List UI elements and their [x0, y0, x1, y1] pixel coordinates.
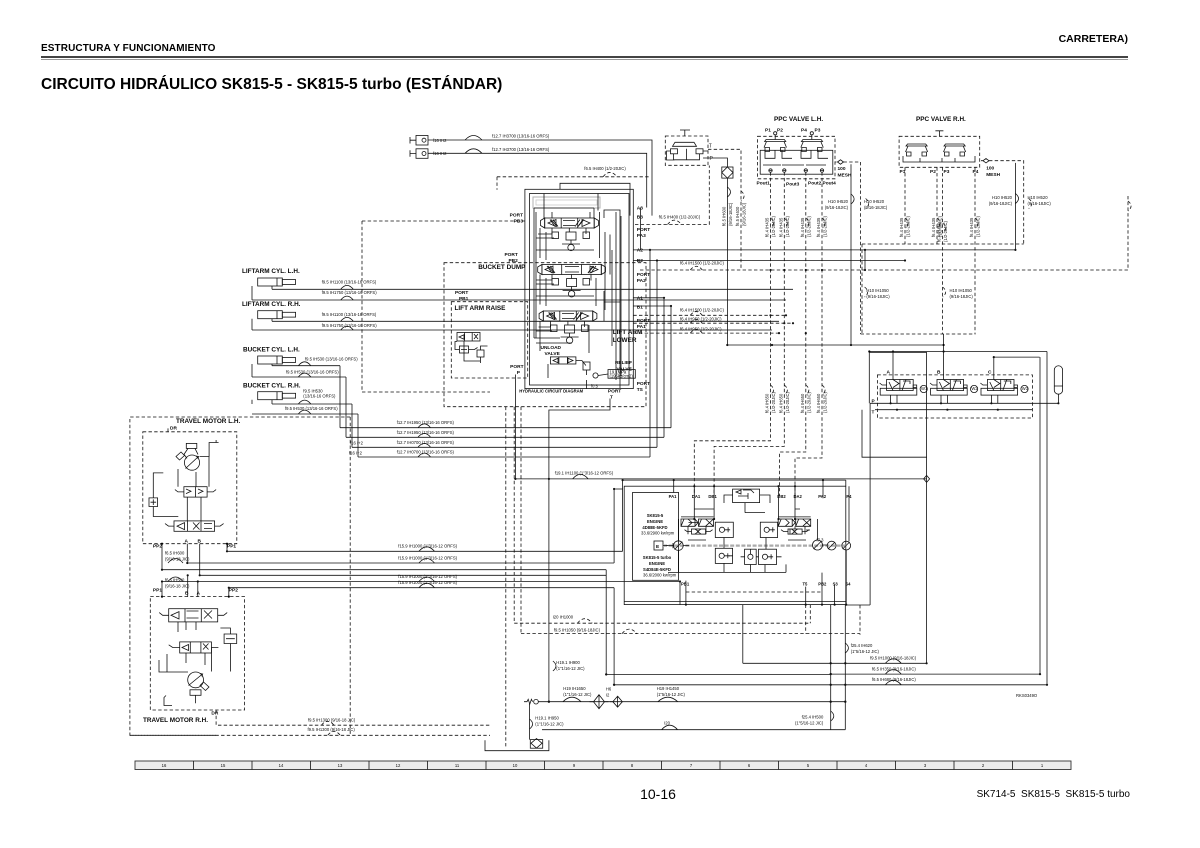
svg-text:B2: B2 — [637, 258, 643, 264]
svg-text:f6.5 IH600: f6.5 IH600 — [721, 206, 726, 226]
hose bucket bundle f12.7 IH0700 line3 — [350, 440, 657, 448]
pilot dashed PA1 row f6.4 IH950 — [633, 317, 793, 324]
svg-text:LOWER: LOWER — [613, 337, 637, 344]
solenoid P bus — [845, 403, 1058, 605]
wire B1 stub and drop — [633, 306, 671, 428]
svg-text:P4: P4 — [801, 128, 807, 134]
svg-text:PORT: PORT — [510, 364, 523, 370]
svg-text:f9.5 IH1750 (13/16-16 ORFS): f9.5 IH1750 (13/16-16 ORFS) — [322, 323, 378, 328]
wire suction drop f25.4 IH500 — [795, 605, 834, 730]
svg-text:(1/2-20JIC): (1/2-20JIC) — [906, 215, 911, 237]
solenoid supply bus — [727, 345, 943, 352]
svg-text:f6.4 IH435: f6.4 IH435 — [816, 217, 821, 237]
svg-text:13: 13 — [338, 763, 343, 768]
svg-text:f12.7 IH0700 (13/16-16 ORFS): f12.7 IH0700 (13/16-16 ORFS) — [397, 440, 455, 445]
wire PPC LH return dashed down — [844, 162, 891, 334]
svg-text:S3: S3 — [833, 582, 839, 587]
pilot dashed bus f6.4 IH1500 long — [640, 261, 1128, 271]
control valve dashed enclosure (bucket dump) — [444, 263, 646, 407]
svg-text:P1: P1 — [765, 128, 771, 134]
svg-text:H10 IH520: H10 IH520 — [1028, 195, 1049, 200]
wire accumulator to P bus — [1057, 402, 1059, 404]
svg-text:PORT: PORT — [510, 213, 523, 219]
hose f19.1 IH1100 pump delivery — [515, 471, 926, 479]
dashed T5 drain — [521, 605, 860, 635]
svg-text:BUCKET CYL. R.H.: BUCKET CYL. R.H. — [243, 383, 301, 390]
travel motor RH port B A — [185, 591, 201, 597]
travel motors outer dashed enclosure — [130, 417, 350, 735]
svg-text:f15.9 IH1000 (1"3/16-12 ORFS): f15.9 IH1000 (1"3/16-12 ORFS) — [398, 580, 457, 585]
page title — [41, 76, 502, 94]
svg-text:P2: P2 — [930, 169, 936, 175]
hose liftarm RH B f9.5 IH1750 — [252, 323, 772, 330]
svg-text:H10 IH520: H10 IH520 — [828, 199, 849, 204]
svg-text:f9.5 IH1300 (9/16-18 JIC): f9.5 IH1300 (9/16-18 JIC) — [308, 718, 356, 723]
wire PA1 riser bus — [623, 480, 846, 551]
travel line PP1L y551 — [227, 544, 623, 552]
svg-text:f12.7 IH3700 (13/16-16 ORFS): f12.7 IH3700 (13/16-16 ORFS) — [492, 147, 550, 152]
travel motor RH assembly — [150, 597, 244, 717]
svg-text:f9.5 IH1300 (9/16-18 JIC): f9.5 IH1300 (9/16-18 JIC) — [308, 727, 356, 732]
svg-text:B1: B1 — [637, 305, 643, 311]
svg-text:(9/16-18JIC): (9/16-18JIC) — [864, 205, 888, 210]
svg-text:H6: H6 — [606, 687, 612, 692]
travel motor RH port PP2 — [228, 588, 238, 598]
svg-text:(1/2-20JIC): (1/2-20JIC) — [976, 215, 981, 237]
svg-text:SK815-5: SK815-5 — [647, 513, 664, 518]
drain hose f9.5 IH1300 1 — [216, 710, 490, 725]
svg-text:(9/16-18JIC): (9/16-18JIC) — [728, 202, 733, 226]
svg-text:ENGINE: ENGINE — [649, 561, 665, 566]
svg-text:f6.4 IH435: f6.4 IH435 — [931, 217, 936, 237]
svg-text:f12.7 IH0700 (13/16-16 ORFS): f12.7 IH0700 (13/16-16 ORFS) — [397, 450, 455, 455]
svg-text:P3: P3 — [815, 128, 821, 134]
engine top relief box — [733, 489, 760, 503]
svg-text:f6.5 IH600: f6.5 IH600 — [165, 551, 185, 556]
tank filter diamond — [530, 739, 542, 749]
page number — [58, 786, 1200, 802]
port label PORT TS — [637, 381, 650, 393]
solenoid top bus — [869, 334, 1047, 685]
port label PORT PB2 — [504, 252, 518, 264]
svg-text:RKS0349O: RKS0349O — [1016, 693, 1038, 698]
engine internal wires — [663, 495, 818, 573]
engine E drive box — [654, 541, 663, 550]
svg-text:I20 IH1000: I20 IH1000 — [553, 615, 574, 620]
hose f6.5 IH500 RH label — [165, 577, 190, 589]
svg-text:A2: A2 — [637, 248, 643, 254]
hose f12.7 IH3700 upper — [428, 134, 652, 216]
svg-text:f6.5 IH350 (9/16-18JIC): f6.5 IH350 (9/16-18JIC) — [872, 667, 916, 672]
port label PORT PA3 — [637, 227, 650, 239]
svg-text:f6.4 IH650: f6.4 IH650 — [816, 393, 821, 413]
travel line BL y575.3 — [200, 574, 607, 576]
header: right label — [1059, 33, 1128, 45]
svg-text:(1/2-20JIC): (1/2-20JIC) — [771, 215, 776, 237]
svg-text:E: E — [656, 544, 660, 550]
PPC RH 100 mesh strainer — [981, 159, 1001, 179]
pilot line RH P1 dashed — [899, 167, 911, 244]
svg-text:f6.5 IH400: f6.5 IH400 — [735, 206, 740, 226]
travel motor LH port PP2 — [153, 543, 163, 550]
gear pump 3 — [827, 541, 836, 550]
pilot line Pout2 dashed — [780, 172, 812, 496]
svg-text:I2: I2 — [606, 693, 610, 698]
hose bucket bundle f12.7 IH1950 line2 — [346, 430, 664, 438]
svg-text:T5: T5 — [803, 582, 809, 587]
svg-text:f9.5 IH1100 (13/16-16 ORFS): f9.5 IH1100 (13/16-16 ORFS) — [322, 280, 377, 285]
wire A2 drop — [649, 250, 651, 457]
svg-text:(9/16-18JIC): (9/16-18JIC) — [866, 294, 890, 299]
PPC LH 100 mesh strainer — [836, 160, 852, 179]
engine port labels bottom — [681, 582, 851, 587]
wire travel line4 join — [598, 574, 606, 576]
svg-text:(1"5/16-12 JIC): (1"5/16-12 JIC) — [657, 692, 686, 697]
PPC valve RH assembly — [899, 131, 980, 175]
svg-text:11: 11 — [455, 763, 460, 768]
svg-text:TRAVEL MOTOR R.H.: TRAVEL MOTOR R.H. — [143, 717, 208, 724]
svg-text:(1"1/16-12 JIC): (1"1/16-12 JIC) — [563, 692, 592, 697]
svg-text:f9.5 IH1100 (13/16-16 ORFS): f9.5 IH1100 (13/16-16 ORFS) — [322, 312, 377, 317]
wire PPC RH return dashed down — [989, 161, 1051, 244]
wire travel line3 drop to suction — [606, 570, 831, 675]
liftarm cylinder LH — [242, 268, 300, 300]
svg-text:P3: P3 — [944, 169, 950, 175]
solenoid T bus — [862, 410, 1032, 458]
solenoid valve block enclosure — [877, 375, 1032, 418]
port label PORT PB1 — [455, 290, 469, 302]
svg-text:f6.4 IH435: f6.4 IH435 — [778, 217, 783, 237]
wire A3 internal drop — [640, 208, 642, 250]
svg-text:(1/2-20JIC): (1/2-20JIC) — [785, 391, 790, 413]
svg-text:PORT: PORT — [637, 381, 650, 387]
svg-text:P2: P2 — [777, 128, 783, 134]
solenoid valve C — [980, 370, 1028, 404]
svg-text:f25.4 IH500: f25.4 IH500 — [802, 715, 824, 720]
svg-text:f6.4 IH650: f6.4 IH650 — [800, 393, 805, 413]
svg-text:B: B — [198, 539, 202, 545]
svg-text:f9.5 IH530 (13/16-16 ORFS): f9.5 IH530 (13/16-16 ORFS) — [305, 356, 358, 361]
wire PB2 drop f25.4 IH620 — [845, 605, 879, 730]
wire main drop to bottom right — [869, 352, 926, 663]
dashed drops to tank — [506, 407, 521, 747]
svg-text:(1/2-20JIC): (1/2-20JIC) — [806, 215, 811, 237]
svg-text:P4: P4 — [973, 169, 979, 175]
wire B2 drop — [656, 261, 658, 448]
svg-text:A1: A1 — [637, 296, 643, 302]
wire filter down to solenoid feed bus — [721, 178, 733, 345]
svg-text:f15.9 IH1000 (1"3/16-12 ORFS): f15.9 IH1000 (1"3/16-12 ORFS) — [398, 544, 457, 549]
svg-text:Pout4: Pout4 — [823, 181, 837, 187]
svg-text:PB2: PB2 — [818, 582, 827, 587]
svg-text:PPC VALVE R.H.: PPC VALVE R.H. — [916, 116, 966, 123]
wire port P drop — [514, 375, 516, 479]
svg-text:33.6/2900 kw/rpm: 33.6/2900 kw/rpm — [641, 531, 675, 536]
svg-text:f6.5 IH680 (9/16-18JIC): f6.5 IH680 (9/16-18JIC) — [872, 677, 916, 682]
drain line to tank lower I20 — [542, 721, 845, 730]
svg-text:f9.5 IH530 (13/16-16 ORFS): f9.5 IH530 (13/16-16 ORFS) — [286, 369, 339, 374]
wire A2 to pilot bus drop — [864, 250, 866, 270]
svg-text:Pout3: Pout3 — [786, 181, 800, 187]
pilot line Pout4 dashed — [795, 172, 828, 496]
svg-text:PORT: PORT — [608, 389, 621, 395]
wire pilot valve P to filter — [703, 158, 727, 167]
PPC valve LH assembly — [757, 128, 837, 188]
svg-text:(9/16-18JIC): (9/16-18JIC) — [989, 201, 1013, 206]
svg-text:14: 14 — [279, 763, 284, 768]
bucket cylinder RH — [243, 383, 336, 405]
bottom right line f6.5 IH350 — [831, 357, 1040, 674]
travel motor LH assembly — [143, 426, 237, 545]
svg-text:f6.4 IH410: f6.4 IH410 — [937, 222, 942, 242]
relief valve — [593, 360, 635, 378]
drain hose f9.5 IH1300 2 — [130, 727, 490, 735]
header rule — [41, 56, 1128, 58]
svg-text:DB1: DB1 — [708, 494, 717, 499]
engine internal extra galleries — [624, 509, 846, 602]
wire bucket lines drop to bundle — [340, 366, 358, 457]
svg-text:HYDRAULIC CIRCUIT DIAGRAM: HYDRAULIC CIRCUIT DIAGRAM — [519, 389, 583, 394]
solenoid block dashed pilot bus — [861, 333, 976, 335]
pilot line RH P3 dashed — [937, 167, 974, 334]
port label PORT P — [510, 364, 523, 376]
wire PPC RH supply down — [989, 163, 1019, 250]
hose bucket LH B f9.5 IH530 — [252, 369, 346, 377]
svg-text:f6.4 IH435: f6.4 IH435 — [765, 217, 770, 237]
svg-text:B: B — [937, 370, 941, 376]
engine internal valves right — [778, 519, 811, 534]
svg-text:DR: DR — [170, 426, 177, 432]
svg-text:(1/2-20JIC): (1/2-20JIC) — [771, 391, 776, 413]
svg-text:PP2: PP2 — [229, 588, 238, 594]
engine port stubs bottom — [686, 550, 846, 605]
control valve outer body — [525, 189, 633, 388]
breather drop to tank filter — [530, 704, 565, 740]
hose f19.1 IH900 label on T drop — [553, 660, 585, 671]
pilot dashed PA2 row f6.4 IH1500 — [633, 307, 786, 315]
svg-text:100: 100 — [986, 166, 994, 172]
hydraulic pump 1 — [666, 541, 689, 551]
control valve dashed enclosure top — [362, 221, 525, 392]
svg-text:A: A — [197, 591, 201, 597]
breather W — [524, 699, 538, 704]
svg-text:H19 IH1650: H19 IH1650 — [563, 686, 586, 691]
svg-text:DA1: DA1 — [692, 494, 701, 499]
svg-text:f6.4 IH1500 (1/2-20JIC): f6.4 IH1500 (1/2-20JIC) — [680, 261, 724, 266]
engine junction dots — [673, 479, 848, 606]
junction diamond on main drop — [924, 475, 930, 482]
valve internal gallery wires extra — [536, 212, 605, 353]
solenoid valve A — [880, 370, 928, 404]
svg-text:PORT: PORT — [637, 272, 650, 278]
svg-text:H19.1 IH950: H19.1 IH950 — [535, 716, 559, 721]
hose liftarm LH A f9.5 IH1100 — [272, 280, 793, 290]
svg-text:H10 IH520: H10 IH520 — [992, 195, 1013, 200]
svg-text:LIFT ARM: LIFT ARM — [613, 329, 643, 336]
svg-text:BUCKET DUMP: BUCKET DUMP — [478, 264, 526, 271]
svg-text:LIFTARM CYL. R.H.: LIFTARM CYL. R.H. — [242, 301, 301, 308]
svg-text:PB1: PB1 — [681, 582, 690, 587]
svg-text:f16 I+2: f16 I+2 — [349, 450, 363, 455]
engine internal valves left — [681, 519, 714, 534]
bottom scale ruler — [135, 761, 1071, 770]
svg-text:PA1: PA1 — [669, 494, 678, 499]
port label PORT T — [591, 384, 621, 401]
wire A2 to right — [633, 249, 1014, 251]
svg-text:12: 12 — [396, 763, 401, 768]
svg-text:SK815-5 turbo: SK815-5 turbo — [643, 555, 672, 560]
svg-text:(1/2-20JIC): (1/2-20JIC) — [823, 215, 828, 237]
valve spool section 1 (PA1) — [539, 311, 597, 343]
valve right side frame lines — [612, 212, 621, 380]
junction dots bottom — [548, 662, 847, 703]
line filter F1 — [722, 167, 733, 178]
svg-text:W2: W2 — [971, 386, 978, 391]
svg-text:PORT: PORT — [637, 227, 650, 233]
bucket cylinder LH — [243, 347, 300, 378]
travel line y581.5 — [162, 574, 680, 582]
unload valve — [541, 345, 591, 375]
svg-text:Pout1: Pout1 — [757, 181, 771, 187]
svg-text:PORT: PORT — [637, 318, 650, 324]
engine port stubs top — [674, 486, 849, 541]
svg-text:(9/16-18JIC): (9/16-18JIC) — [1028, 201, 1052, 206]
control valve dashed enclosure (lift arm raise) — [451, 302, 527, 378]
svg-text:(1/2-20JIC): (1/2-20JIC) — [943, 220, 948, 242]
quick coupler 1 — [410, 136, 447, 146]
dashed right edge drop — [1128, 196, 1131, 270]
svg-text:PP2: PP2 — [153, 544, 162, 550]
lift arm raise pilot cluster — [455, 333, 488, 364]
svg-text:(1"5/16-12 JIC): (1"5/16-12 JIC) — [851, 649, 880, 654]
svg-text:f9.5 IH530 (13/16-16 ORFS): f9.5 IH530 (13/16-16 ORFS) — [285, 406, 338, 411]
pilot line Pout1 dashed — [694, 172, 776, 496]
svg-text:4D88E-5KFD: 4D88E-5KFD — [642, 525, 667, 530]
wire travel line6 drop — [613, 588, 615, 685]
svg-text:H19.1 IH900: H19.1 IH900 — [556, 660, 580, 665]
hose bucket bundle f12.7 IH1950 line1 — [340, 420, 671, 428]
svg-text:16: 16 — [162, 763, 167, 768]
svg-text:(1/2-20JIC): (1/2-20JIC) — [785, 215, 790, 237]
svg-text:(9/16-18JIC): (9/16-18JIC) — [825, 205, 849, 210]
svg-text:f15.9 IH1000 (1"3/16-12 ORFS): f15.9 IH1000 (1"3/16-12 ORFS) — [398, 574, 457, 579]
svg-text:f9.5 IH1050 (9/16-18JIC): f9.5 IH1050 (9/16-18JIC) — [554, 627, 601, 632]
svg-text:(1"1/16-12 JIC): (1"1/16-12 JIC) — [556, 666, 585, 671]
svg-text:ENGINE: ENGINE — [647, 519, 663, 524]
svg-text:(9/16-18JIC): (9/16-18JIC) — [742, 202, 747, 226]
svg-text:f25.4 IH620: f25.4 IH620 — [851, 643, 873, 648]
svg-text:H10 IH520: H10 IH520 — [864, 199, 885, 204]
svg-text:(9/16-18 JIC): (9/16-18 JIC) — [165, 584, 190, 589]
svg-text:LIFT ARM RAISE: LIFT ARM RAISE — [455, 305, 507, 312]
valve spool section 2 (PA2) — [538, 265, 606, 297]
svg-text:W3: W3 — [1022, 386, 1029, 391]
port label PORT PB3 — [510, 213, 524, 225]
travel line PP2L y569.7 — [162, 569, 606, 571]
svg-text:PA2: PA2 — [637, 278, 646, 284]
svg-text:f6.4 IH435: f6.4 IH435 — [800, 217, 805, 237]
svg-text:VALVE: VALVE — [545, 351, 561, 357]
svg-text:f19.1 IH1100 (1"3/16-12 ORFS): f19.1 IH1100 (1"3/16-12 ORFS) — [555, 471, 614, 476]
svg-text:Pout2: Pout2 — [808, 181, 822, 187]
svg-text:10: 10 — [513, 763, 518, 768]
wire travel line2 riser — [614, 489, 623, 563]
svg-text:A3: A3 — [637, 206, 643, 212]
svg-text:TRAVEL MOTOR L.H.: TRAVEL MOTOR L.H. — [176, 418, 240, 425]
hydraulic pump 2 — [813, 540, 828, 550]
hose label on pilot T drop — [735, 191, 747, 226]
svg-text:f6.4 IH650: f6.4 IH650 — [778, 393, 783, 413]
engine check valve block 2 — [760, 522, 777, 537]
hose liftarm LH B f9.5 IH1750 — [252, 290, 786, 300]
svg-text:f6.4 IH950 (1/2-20JIC): f6.4 IH950 (1/2-20JIC) — [680, 317, 722, 322]
port label PORT PA1 — [637, 318, 650, 330]
wire travel line5 to PB1 — [679, 582, 681, 605]
liftarm cylinder RH — [242, 301, 301, 330]
svg-text:P: P — [710, 156, 714, 162]
svg-text:H19 IH1450: H19 IH1450 — [657, 686, 680, 691]
hose bucket RH A f9.5 IH530 — [272, 400, 352, 404]
accumulator — [1054, 366, 1062, 404]
svg-text:C: C — [988, 370, 992, 376]
hose bucket LH A f9.5 IH530 — [272, 356, 358, 365]
svg-text:f7.3: f7.3 — [817, 538, 825, 543]
svg-text:15: 15 — [221, 763, 226, 768]
svg-text:100: 100 — [838, 166, 846, 172]
svg-text:PB1: PB1 — [459, 296, 469, 302]
dashed drain f9.5 IH1050 label — [554, 627, 637, 633]
hose f12.7 IH3700 lower — [428, 147, 647, 208]
svg-text:MESH: MESH — [838, 173, 852, 179]
svg-text:A: A — [185, 539, 189, 545]
svg-text:MESH: MESH — [986, 172, 1000, 178]
return filter diamond 2 — [610, 696, 623, 707]
svg-text:TS: TS — [637, 387, 644, 393]
svg-text:f6.4 IH435: f6.4 IH435 — [969, 217, 974, 237]
main line to solenoid block junction — [943, 344, 945, 346]
svg-text:f0.5: f0.5 — [591, 384, 599, 389]
svg-text:(1"5/16-12 JIC): (1"5/16-12 JIC) — [795, 721, 824, 726]
svg-text:A: A — [887, 370, 891, 376]
bottom right line f9.5 IH1000 — [743, 605, 927, 664]
svg-text:f15.9 IH1000 (1"3/16-12 ORFS): f15.9 IH1000 (1"3/16-12 ORFS) — [398, 555, 457, 560]
svg-text:f12.7 IH1950 (13/16-16 ORFS): f12.7 IH1950 (13/16-16 ORFS) — [397, 430, 455, 435]
wire B2 to right — [633, 260, 905, 262]
svg-text:f12.7 IH3700 (13/16-16 ORFS): f12.7 IH3700 (13/16-16 ORFS) — [492, 134, 550, 139]
svg-text:B3: B3 — [637, 215, 643, 221]
svg-text:PORT: PORT — [455, 290, 468, 296]
valve spool section 3 (PA3) — [541, 218, 599, 251]
svg-text:H10 IH1050: H10 IH1050 — [950, 288, 973, 293]
hose f6.5 IH600 LH label — [165, 551, 190, 564]
svg-text:T: T — [610, 395, 613, 401]
wire pilot valve T dashed to right — [708, 149, 741, 270]
dashed drain bus I20 IH1000 — [514, 605, 810, 624]
svg-text:36.6/2000 kw/rpm: 36.6/2000 kw/rpm — [643, 573, 677, 578]
hose liftarm RH A f9.5 IH1100 — [272, 312, 779, 321]
engine check valve block 1 — [715, 522, 733, 537]
pilot line RH P2 dashed — [931, 167, 943, 244]
hose f6.5 IH400 B3 dashed — [635, 166, 709, 225]
engine check valve block 3 — [715, 548, 732, 563]
port label PORT PA2 — [637, 272, 650, 284]
svg-text:LIFTARM CYL. L.H.: LIFTARM CYL. L.H. — [242, 268, 300, 275]
svg-text:(1"1/16-12 JIC): (1"1/16-12 JIC) — [535, 722, 564, 727]
travel motor LH port PP1 — [226, 543, 236, 550]
svg-text:PB3: PB3 — [514, 219, 524, 225]
gear pump 4 — [842, 541, 851, 550]
svg-text:PP1: PP1 — [227, 544, 236, 550]
